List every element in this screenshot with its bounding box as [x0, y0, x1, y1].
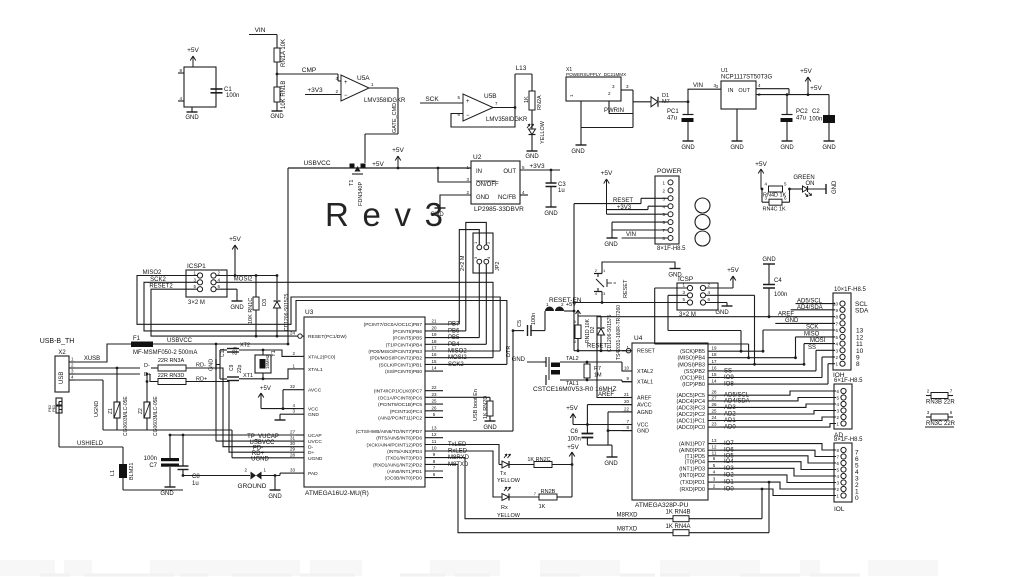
svg-text:NCP1117ST50T3G: NCP1117ST50T3G [721, 75, 772, 81]
net TxLED wire [443, 445, 499, 465]
svg-text:17: 17 [431, 346, 437, 351]
svg-text:C5: C5 [517, 320, 523, 327]
net AD5/SCL wire [796, 303, 836, 305]
svg-text:20: 20 [431, 325, 437, 330]
net AREF wire to IOH [768, 315, 771, 318]
svg-text:XTAL2: XTAL2 [637, 369, 653, 375]
svg-text:+3V3: +3V3 [529, 163, 545, 170]
svg-text:−: − [344, 93, 348, 99]
svg-text:D2: D2 [590, 326, 596, 333]
net DTR wire from U3 PD7 [443, 430, 513, 432]
svg-text:XT1: XT1 [243, 373, 253, 379]
svg-text:25: 25 [711, 409, 717, 414]
wire JP2 pins to U3 PB [459, 230, 479, 325]
svg-text:GND: GND [476, 195, 490, 201]
wire AGND [608, 411, 632, 413]
ground [531, 135, 533, 151]
svg-text:POWER: POWER [657, 168, 682, 175]
svg-text:(XCK/AIN4/PCINT12)PD5: (XCK/AIN4/PCINT12)PD5 [367, 443, 423, 449]
svg-text:1K: 1K [524, 96, 530, 103]
wire RD- to U3 [186, 368, 296, 447]
net MOSI wire to IOH [804, 343, 835, 345]
svg-text:SCK: SCK [425, 96, 439, 103]
svg-text:10: 10 [431, 446, 437, 451]
svg-text:D-: D- [308, 445, 314, 451]
varistor Z2 CG0603MLC-05E [146, 373, 149, 376]
svg-text:U1: U1 [721, 68, 728, 74]
svg-text:MF-MSMF050-2 500mA: MF-MSMF050-2 500mA [133, 350, 197, 356]
svg-text:GND: GND [483, 425, 497, 431]
wire XTAL1 [621, 380, 623, 382]
net tie GROUND [183, 475, 250, 477]
svg-text:14: 14 [711, 379, 717, 384]
node CMP junction [276, 73, 279, 76]
svg-text:RN3B 22R: RN3B 22R [926, 400, 955, 406]
svg-text:24: 24 [711, 415, 717, 420]
svg-text:IN: IN [728, 88, 734, 94]
svg-text:22p: 22p [237, 364, 243, 373]
svg-text:GND: GND [822, 145, 836, 151]
svg-text:GND: GND [780, 145, 794, 151]
wire ICSP1 pin6 to gnd [216, 288, 237, 290]
wire button bottom to reset net [601, 292, 603, 303]
svg-text:UCAP: UCAP [308, 433, 322, 439]
svg-text:(AIN2/PCINT11)PC2: (AIN2/PCINT11)PC2 [378, 415, 422, 421]
wire USHIELD [59, 401, 62, 403]
wire +5V rail [288, 167, 349, 169]
ground [824, 140, 835, 142]
svg-text:(PD0/MISO/PCINT3)PB3: (PD0/MISO/PCINT3)PB3 [368, 349, 422, 355]
svg-text:GND: GND [185, 115, 199, 121]
resistor RN2A 1K [531, 74, 533, 91]
op-amp U5A LMV358IDGKR [341, 75, 369, 101]
svg-text:RN1A 10K: RN1A 10K [281, 39, 287, 67]
svg-text:CMP: CMP [302, 67, 316, 74]
svg-text:(INT0)PD2: (INT0)PD2 [679, 473, 705, 479]
+5V rail to pullups [235, 275, 277, 277]
wire reset row upper [574, 302, 687, 304]
wire ICSP pin6 gnd [706, 302, 727, 304]
transistor T1 FDN340P [350, 164, 355, 169]
svg-text:TAL2: TAL2 [566, 356, 579, 362]
resistor RN1B 10K [276, 74, 278, 87]
ground [276, 102, 278, 111]
svg-text:XUSB: XUSB [84, 356, 100, 362]
svg-text:100n: 100n [774, 292, 787, 298]
resistor RN2B 1K [509, 496, 539, 498]
svg-text:C9: C9 [229, 364, 235, 371]
svg-text:21: 21 [624, 392, 630, 397]
svg-text:30: 30 [290, 441, 296, 446]
svg-text:11: 11 [432, 439, 437, 444]
svg-text:GATE_CMD: GATE_CMD [392, 103, 398, 133]
svg-text:AD4/SDA: AD4/SDA [797, 305, 823, 311]
wire button to gnd [602, 262, 675, 274]
svg-text:M8TXD: M8TXD [617, 527, 638, 533]
svg-text:100n: 100n [809, 117, 822, 123]
svg-text:(ADC4)PC4: (ADC4)PC4 [677, 399, 705, 405]
svg-text:C6: C6 [570, 429, 578, 435]
svg-text:(T1/PCINT4)PB4: (T1/PCINT4)PB4 [386, 342, 423, 348]
svg-text:RN3C 22R: RN3C 22R [926, 421, 956, 427]
svg-text:(TXD1/INT3)PD3: (TXD1/INT3)PD3 [385, 456, 422, 462]
svg-text:YELLOW: YELLOW [497, 513, 521, 519]
svg-text:(ADC2)PC2: (ADC2)PC2 [677, 412, 705, 418]
svg-text:LP2985-33DBVR: LP2985-33DBVR [474, 206, 524, 213]
svg-text:USBVCC: USBVCC [167, 338, 193, 344]
svg-text:SS: SS [808, 345, 816, 351]
svg-text:1u: 1u [558, 188, 565, 194]
resistor RN3C 22R [926, 416, 931, 418]
svg-text:GND: GND [308, 412, 319, 418]
svg-text:+5V: +5V [727, 267, 739, 274]
svg-text:16: 16 [711, 365, 717, 370]
svg-text:C2: C2 [812, 109, 820, 115]
svg-text:(OC1)PB1: (OC1)PB1 [680, 376, 705, 382]
net SCK wire to IOH [763, 329, 835, 331]
svg-text:MOSI: MOSI [810, 338, 826, 344]
svg-text:23: 23 [431, 392, 437, 397]
capacitor C1 100n [211, 88, 223, 90]
svg-text:UGND: UGND [94, 401, 100, 417]
svg-text:27: 27 [711, 395, 717, 400]
svg-text:13: 13 [711, 438, 717, 443]
wire [514, 74, 516, 108]
capacitor C3 1u [546, 182, 557, 184]
wire U2 gnd pin [440, 195, 471, 208]
svg-text:P$1: P$1 [51, 404, 56, 412]
svg-text:26: 26 [711, 402, 717, 407]
svg-text:OUT: OUT [738, 88, 750, 94]
wire GND U4 [608, 430, 632, 432]
capacitor PC2 47u polarized [786, 95, 788, 114]
ground [607, 237, 618, 239]
svg-text:Tx: Tx [500, 471, 506, 477]
svg-text:DTR: DTR [506, 346, 512, 357]
svg-text:IN: IN [476, 169, 482, 175]
svg-text:GND: GND [681, 145, 695, 151]
svg-text:47u: 47u [667, 116, 677, 122]
ground [732, 140, 743, 142]
wire USBVCC down to U3 UVCC [215, 344, 217, 441]
svg-text:47u: 47u [796, 116, 806, 122]
svg-text:(MISO)PB4: (MISO)PB4 [677, 356, 705, 362]
USB shield pads P$1 P$2 [56, 398, 62, 405]
svg-text:1K: 1K [539, 504, 546, 510]
svg-text:ON: ON [806, 181, 815, 187]
svg-text:(OC0B/INT0)PD0: (OC0B/INT0)PD0 [385, 476, 423, 482]
svg-text:AREF: AREF [778, 311, 794, 317]
svg-text:GND: GND [230, 305, 244, 311]
IOL staircase wires [720, 444, 836, 450]
op-amp U5 power block [184, 67, 216, 107]
wire USBVCC rail [153, 343, 288, 345]
net M8TXD wire from U3 [443, 464, 673, 532]
svg-text:18: 18 [431, 339, 437, 344]
svg-text:20: 20 [624, 399, 630, 404]
wire [277, 73, 338, 75]
ground [546, 206, 557, 208]
wire U1 out [756, 88, 789, 90]
svg-text:+3V3: +3V3 [617, 205, 632, 211]
svg-text:(PDI/MOSI/PCINT2)PB2: (PDI/MOSI/PCINT2)PB2 [370, 356, 423, 362]
svg-text:10K RN1C: 10K RN1C [248, 298, 254, 324]
svg-text:(SS/PCINT0)PB0: (SS/PCINT0)PB0 [385, 369, 422, 375]
ground [165, 486, 176, 488]
svg-text:(SCLK/PCINT1)PB1: (SCLK/PCINT1)PB1 [379, 362, 423, 368]
wire pin1 to gnd [580, 101, 582, 145]
svg-text:GROUND: GROUND [238, 483, 267, 490]
ground rotated [825, 184, 827, 194]
U3 left pins [296, 335, 304, 337]
resistor RN1A 10K [274, 48, 280, 62]
ground [191, 107, 193, 112]
svg-text:YELLOW: YELLOW [540, 120, 546, 144]
cropped faint text row at sheet bottom [0, 560, 55, 576]
svg-text:D+: D+ [308, 450, 315, 456]
svg-text:D3: D3 [262, 299, 268, 306]
svg-text:USB boot En: USB boot En [473, 389, 479, 421]
resistor RN2D 1K USB boot En [443, 396, 490, 398]
diode D3 [276, 274, 279, 277]
wire RESET to power pin3 [574, 203, 641, 205]
svg-text:X2: X2 [58, 350, 66, 356]
svg-text:RN4C 1K: RN4C 1K [763, 207, 787, 213]
svg-text:10K RN1B: 10K RN1B [281, 81, 287, 109]
svg-text:(MOSI)PB3: (MOSI)PB3 [677, 362, 705, 368]
net RxLED wire [443, 451, 502, 497]
wire [550, 170, 552, 183]
capacitor PC1 47u polarized [687, 102, 689, 114]
svg-text:GND: GND [604, 461, 618, 467]
wire reset net vertical [573, 204, 575, 351]
svg-text:U3: U3 [305, 309, 314, 316]
svg-text:15: 15 [431, 359, 437, 364]
svg-text:(AIN1)PD7: (AIN1)PD7 [679, 442, 705, 448]
LED TX yellow [504, 454, 507, 458]
svg-text:16: 16 [431, 352, 437, 357]
svg-text:+5V: +5V [372, 161, 384, 168]
wire [790, 188, 803, 190]
svg-text:USBVCC: USBVCC [303, 160, 330, 167]
svg-text:ICSP1: ICSP1 [187, 263, 206, 270]
svg-text:+5V: +5V [392, 147, 404, 154]
capacitor C5 100n [512, 329, 515, 332]
svg-text:26: 26 [431, 405, 437, 410]
svg-text:JP2: JP2 [495, 262, 501, 271]
svg-text:8×1F-H8.5: 8×1F-H8.5 [834, 437, 863, 443]
wire U1 gnd [736, 109, 738, 141]
svg-text:VIN: VIN [693, 83, 703, 89]
svg-text:15: 15 [711, 372, 717, 377]
svg-text:BLM21: BLM21 [129, 463, 135, 480]
net SS wire to IOH [720, 370, 816, 372]
svg-text:100n: 100n [567, 437, 580, 443]
svg-text:IOL: IOL [834, 506, 845, 513]
ground [485, 420, 496, 422]
svg-text:VCC: VCC [637, 423, 648, 429]
wire VIN to power pin8 [622, 237, 668, 239]
svg-text:(OC1A/PCINT8)PC6: (OC1A/PCINT8)PC6 [378, 395, 422, 401]
svg-text:+5V: +5V [260, 386, 271, 392]
ground [782, 140, 793, 142]
svg-text:100n: 100n [226, 93, 239, 99]
svg-text:Z1: Z1 [108, 408, 114, 414]
svg-text:100n: 100n [531, 313, 537, 325]
resistor RN3B 22R [926, 395, 931, 397]
net MISO wire ICSP to U4 [655, 287, 687, 289]
svg-text:USB-B_TH: USB-B_TH [40, 338, 75, 345]
capacitor C8 1u [182, 435, 184, 466]
svg-text:(RXD1/AIN1/INT2)PD2: (RXD1/AIN1/INT2)PD2 [373, 462, 422, 468]
wire to U2 [437, 167, 440, 170]
svg-text:F1: F1 [133, 336, 141, 342]
svg-text:22: 22 [624, 406, 630, 411]
svg-text:10×1F-H8.5: 10×1F-H8.5 [834, 287, 867, 293]
svg-text:29: 29 [290, 447, 296, 452]
net IO8 wire [720, 383, 828, 385]
wire GND pins [612, 221, 668, 223]
ground [607, 456, 618, 458]
svg-text:C7: C7 [149, 463, 157, 469]
svg-text:SCK: SCK [806, 325, 818, 331]
svg-text:−: − [466, 113, 470, 119]
svg-text:Rx: Rx [501, 505, 508, 511]
svg-text:24: 24 [290, 331, 296, 336]
wire RD+ to U3 [186, 382, 296, 453]
svg-text:USHIELD: USHIELD [77, 441, 104, 447]
wire +5V to ICSP1 pin2 [216, 275, 235, 277]
svg-text:(PCINT7/OC0A/OC1C)PB7: (PCINT7/OC0A/OC1C)PB7 [364, 322, 423, 328]
net TP_VUCAP wire [170, 434, 296, 436]
svg-text:TS42031-160R-TR-7260: TS42031-160R-TR-7260 [616, 305, 622, 360]
ground [722, 305, 733, 307]
svg-text:GND: GND [785, 318, 799, 324]
svg-text:Y1: Y1 [271, 350, 277, 357]
svg-text:6×1F-H8.5: 6×1F-H8.5 [834, 378, 863, 384]
svg-text:13: 13 [431, 426, 437, 431]
svg-text:GND: GND [209, 359, 215, 371]
ferrite L1 BLM21 [122, 447, 124, 464]
wire feedback U5B [493, 107, 515, 109]
svg-text:16MHz: 16MHz [265, 355, 270, 369]
svg-text:0: 0 [855, 495, 859, 502]
resistor R7 1M [586, 362, 588, 364]
svg-text:GND: GND [715, 310, 729, 316]
svg-text:2×2 M: 2×2 M [460, 255, 466, 271]
svg-text:TP_VUCAP: TP_VUCAP [247, 434, 279, 440]
net SCK wire ICSP to U4 [668, 294, 687, 296]
diode D2 [578, 315, 601, 317]
svg-text:RESET: RESET [623, 279, 629, 298]
svg-text:(RTS/AIN5/INT6)PD6: (RTS/AIN5/INT6)PD6 [376, 436, 422, 442]
svg-text:M8RXD: M8RXD [616, 513, 638, 519]
svg-text:(TXD)PD1: (TXD)PD1 [680, 480, 705, 486]
svg-text:19: 19 [711, 346, 717, 351]
svg-text:31: 31 [290, 436, 296, 441]
pin4 stub [520, 194, 528, 196]
ground [270, 489, 281, 491]
svg-text:XTAL2(PC0): XTAL2(PC0) [308, 354, 336, 360]
ground [435, 207, 446, 209]
connector JP2 2x2 [473, 233, 493, 273]
net MOSI wire ICSP to U4 [706, 294, 755, 296]
svg-text:+5V: +5V [601, 170, 613, 177]
ground [232, 300, 243, 302]
U3 GND pin stub [280, 413, 296, 415]
svg-text:3×2 M: 3×2 M [679, 312, 696, 318]
svg-text:1M: 1M [594, 373, 602, 379]
svg-text:28: 28 [711, 390, 717, 395]
wire USBVCC up to T1 [287, 168, 289, 344]
net M8RXD wire from U3 [443, 458, 673, 519]
wire +3V3 out [520, 169, 560, 171]
svg-text:12: 12 [711, 445, 717, 450]
svg-text:+5V: +5V [755, 161, 767, 168]
svg-text:OUT: OUT [503, 169, 516, 175]
svg-text:22p: 22p [233, 346, 239, 355]
svg-text:CD1206-S01575: CD1206-S01575 [607, 315, 613, 352]
svg-text:ICSP: ICSP [678, 276, 693, 283]
svg-text:PC2: PC2 [796, 109, 808, 115]
svg-text:RESET: RESET [637, 349, 656, 355]
svg-text:RN2A: RN2A [537, 95, 543, 110]
svg-text:+5V: +5V [187, 47, 199, 54]
diode D1 M7 [633, 101, 651, 103]
wire to gnd [274, 474, 277, 477]
resistor RN2C 1K [509, 464, 534, 466]
wire ICSP pin2 +5V [706, 287, 733, 289]
svg-text:(AIN0/INT1)PD1: (AIN0/INT1)PD1 [387, 469, 422, 475]
svg-text:(RXD)PD0: (RXD)PD0 [680, 487, 705, 493]
svg-text:11: 11 [712, 450, 717, 455]
svg-text:D-: D- [144, 363, 150, 369]
svg-text:32: 32 [290, 384, 296, 389]
svg-text:U4: U4 [634, 335, 643, 342]
resistor network RN4D 1K [769, 186, 783, 192]
svg-text:(PCINT10)PC4: (PCINT10)PC4 [390, 409, 423, 415]
net AD4/SDA wire [791, 309, 835, 311]
AD staircase wires [720, 391, 836, 395]
svg-text:CD1206-S01575: CD1206-S01575 [284, 294, 290, 331]
svg-text:(INT5/AIN3)PD4: (INT5/AIN3)PD4 [387, 449, 422, 455]
svg-text:1K RN2C: 1K RN2C [527, 457, 550, 463]
U3 right PB wires up to JP2 bundle [443, 323, 459, 325]
svg-text:(ICP)PB0: (ICP)PB0 [682, 382, 705, 388]
svg-text:GND: GND [160, 491, 174, 497]
svg-text:AVCC: AVCC [308, 388, 322, 394]
svg-text:VIN: VIN [255, 27, 266, 34]
svg-text:ON/OFF: ON/OFF [476, 182, 499, 188]
svg-text:LMV358IDGKR: LMV358IDGKR [364, 98, 406, 104]
svg-text:(INT1)PD3: (INT1)PD3 [679, 466, 705, 472]
svg-text:UVCC: UVCC [308, 439, 322, 445]
ground [683, 140, 694, 142]
net IO9 wire [720, 377, 822, 379]
wire to U1 IN [688, 89, 721, 102]
svg-text:GND: GND [525, 154, 539, 160]
svg-text:+5V: +5V [567, 444, 579, 451]
svg-text:GND: GND [832, 180, 838, 194]
svg-text:19: 19 [431, 332, 437, 337]
svg-text:23: 23 [711, 422, 717, 427]
svg-text:(INT4/ICP1/CLK0)PC7: (INT4/ICP1/CLK0)PC7 [374, 389, 423, 395]
svg-text:XTAL1: XTAL1 [308, 367, 323, 373]
svg-text:MOSI2: MOSI2 [234, 276, 253, 282]
svg-text:+3V3: +3V3 [307, 87, 323, 94]
svg-text:22: 22 [431, 385, 437, 390]
svg-text:XTAL1: XTAL1 [637, 380, 653, 386]
